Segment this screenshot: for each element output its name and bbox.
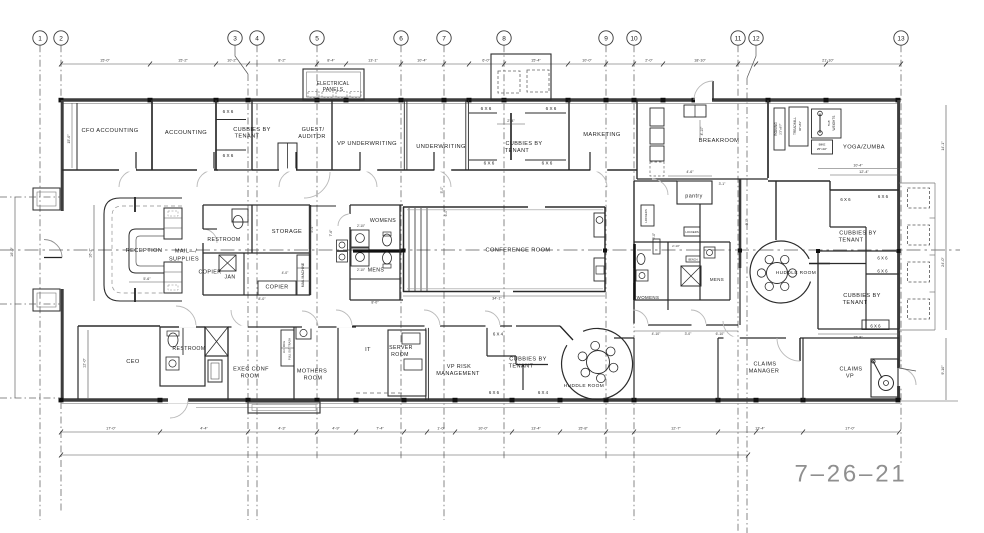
ceo door swing — [176, 306, 196, 326]
junction dot conference west — [402, 249, 406, 253]
door gap vprisk — [425, 325, 441, 328]
top row south wall marketing — [569, 169, 637, 171]
yoga south wall east — [830, 189, 899, 191]
svg-text:PULL OUT TRASH: PULL OUT TRASH — [288, 338, 292, 360]
bottom row north wall a — [160, 326, 205, 328]
ceo west wall — [77, 326, 79, 399]
svg-text:6 X 4: 6 X 4 — [538, 390, 549, 395]
huddle room upper enclosure — [750, 241, 810, 303]
svg-text:ROOM: ROOM — [241, 374, 260, 380]
wall mothers east — [337, 327, 339, 400]
top row south wall vpunderwriting — [334, 169, 405, 171]
cubbies right wall y251 — [818, 250, 899, 252]
cubbies right wall y263 — [818, 263, 866, 265]
north wall window sill line — [61, 103, 900, 105]
grid bubble 11 — [731, 31, 745, 45]
svg-text:7'-6": 7'-6" — [329, 229, 333, 237]
shower stall — [208, 360, 222, 382]
huddle upper chairs — [757, 255, 796, 290]
exterior wall south — [61, 398, 900, 401]
south walkway edge — [196, 407, 560, 409]
svg-text:6 X 6: 6 X 6 — [484, 161, 495, 166]
svg-text:VP UNDERWRITING: VP UNDERWRITING — [337, 141, 397, 147]
corridor north wall link — [310, 205, 336, 207]
svg-text:6'-0": 6'-0" — [444, 209, 448, 217]
svg-text:4'-9": 4'-9" — [332, 427, 340, 431]
svg-text:CEO: CEO — [126, 359, 140, 365]
copier east counter — [258, 281, 296, 295]
cluster thick wall lower — [739, 268, 741, 325]
vp underwriting door swing — [360, 170, 377, 187]
cfo door swing — [119, 170, 136, 187]
wall exec/mothers — [293, 327, 295, 400]
svg-text:HUDDLE ROOM: HUDDLE ROOM — [776, 270, 816, 276]
svg-text:BENCH: BENCH — [688, 258, 697, 262]
top dimension labels — [100, 59, 834, 63]
top row south wall west — [62, 169, 218, 171]
conference inner face south — [407, 288, 603, 290]
mens sink counter — [351, 248, 369, 266]
svg-text:13'-1": 13'-1" — [368, 59, 378, 63]
sw restroom inner wall — [182, 327, 184, 355]
exec counter — [281, 330, 294, 366]
wall breakroom/yoga — [767, 100, 769, 178]
svg-text:9'-10": 9'-10" — [941, 365, 945, 375]
lockers cabinet mid — [684, 227, 700, 236]
svg-text:12'-0": 12'-0" — [83, 358, 87, 368]
wall cubbies east — [251, 100, 253, 170]
grid line 2 — [60, 45, 62, 97]
vestibule inner swing — [304, 172, 330, 198]
svg-text:LOCKERS: LOCKERS — [644, 209, 648, 223]
mothers sink — [296, 327, 311, 339]
cubby south partition d — [522, 365, 524, 391]
barbell symbol — [819, 114, 821, 134]
svg-text:2'-4": 2'-4" — [507, 119, 515, 123]
svg-text:6 X 6: 6 X 6 — [840, 197, 851, 202]
svg-text:9: 9 — [604, 36, 608, 43]
south dimension labels — [106, 427, 855, 431]
cubbies right partition NW horiz — [830, 226, 866, 228]
svg-text:4'-3": 4'-3" — [278, 427, 286, 431]
svg-text:4'-10": 4'-10" — [700, 126, 704, 135]
svg-text:WOMENS: WOMENS — [637, 295, 660, 300]
svg-text:15'-0": 15'-0" — [100, 59, 110, 63]
svg-text:CUBBIES BY: CUBBIES BY — [843, 293, 881, 299]
svg-text:VP RISK: VP RISK — [447, 364, 471, 370]
cubbies right wall y329 — [818, 328, 899, 330]
door gap mothers — [302, 326, 318, 329]
huddle upper door stub — [809, 263, 830, 265]
svg-text:MAIL—/: MAIL—/ — [175, 249, 197, 255]
claims manager door leaf — [799, 338, 801, 361]
svg-text:TENANT: TENANT — [505, 148, 530, 154]
svg-text:34'-1": 34'-1" — [492, 297, 502, 301]
reception desk — [129, 229, 164, 273]
exterior wall north — [61, 98, 900, 101]
east colonnade edge — [934, 183, 936, 330]
east colonnade columns — [908, 188, 930, 319]
svg-text:16'-0": 16'-0" — [10, 247, 14, 257]
svg-text:7'-4": 7'-4" — [376, 427, 384, 431]
door gap it — [337, 325, 353, 328]
svg-text:7–26–21: 7–26–21 — [794, 461, 907, 488]
reception desk inner — [136, 236, 164, 266]
conference credenza south — [594, 258, 605, 281]
ceo vertical dim — [87, 330, 89, 398]
electrical panel units — [308, 92, 361, 98]
svg-text:TENANT: TENANT — [839, 238, 864, 244]
west margin dimension upper — [0, 196, 61, 198]
yoga south wall jog — [829, 181, 831, 190]
door gap underwriting — [435, 168, 452, 171]
svg-text:TENANT: TENANT — [843, 300, 868, 306]
plumbing wall poche — [353, 249, 402, 252]
svg-text:15'-8": 15'-8" — [578, 427, 588, 431]
breakroom counters — [650, 108, 664, 176]
svg-text:18'-10": 18'-10" — [694, 59, 706, 63]
svg-text:6 X 6: 6 X 6 — [870, 324, 881, 329]
core mid wall — [203, 252, 310, 254]
svg-text:MAIL MACHINE: MAIL MACHINE — [301, 262, 305, 287]
door gap ceo — [179, 325, 196, 328]
svg-text:TENANT: TENANT — [235, 134, 260, 140]
wall accounting east — [215, 100, 217, 170]
grid line 12 leader — [747, 45, 756, 78]
claims north wall east — [800, 337, 899, 339]
sw sink — [166, 357, 179, 370]
vp underwriting door leaf — [359, 152, 361, 170]
marketing door leaf — [589, 152, 591, 170]
south wall column blocks — [59, 398, 901, 403]
cubbies right wall y274 — [866, 273, 899, 275]
centre restroom block north wall — [350, 204, 403, 206]
breakroom dim mark — [699, 120, 701, 140]
south dimension line — [61, 431, 899, 433]
grid bubble 13 — [894, 31, 908, 45]
mens south wall — [350, 278, 400, 280]
svg-text:6 X 6: 6 X 6 — [489, 390, 500, 395]
grid line 9 — [605, 45, 607, 460]
weights area — [812, 109, 842, 138]
cubbies centre spine wall — [510, 113, 512, 160]
svg-text:2'-10": 2'-10" — [672, 244, 680, 248]
svg-text:2'2"x8'7": 2'2"x8'7" — [779, 123, 783, 134]
cluster wall north — [634, 180, 677, 182]
svg-text:10'-0": 10'-0" — [582, 59, 592, 63]
wall vprisk east — [486, 326, 488, 356]
mothers door swing — [302, 311, 318, 327]
wall exec west — [227, 327, 229, 400]
svg-text:MARKETING: MARKETING — [583, 132, 620, 138]
grid bubble 3 — [228, 31, 242, 45]
grid line 13 — [900, 45, 902, 465]
wall marketing west — [568, 100, 570, 170]
reception inner guide — [112, 206, 182, 293]
svg-text:6 X 6: 6 X 6 — [546, 106, 557, 111]
rowing machine — [774, 108, 785, 150]
svg-text:15'-4": 15'-4" — [531, 59, 541, 63]
label 6X6 boxed — [862, 320, 889, 330]
svg-text:13'-4": 13'-4" — [531, 427, 541, 431]
urinal lower — [337, 252, 348, 263]
wall jan east — [243, 253, 245, 295]
grid bubble 8 — [497, 31, 511, 45]
claims manager door swing — [777, 338, 800, 361]
door gap guest — [279, 168, 296, 171]
womens centre door swing — [338, 214, 350, 226]
cubbies right wall x866 — [865, 227, 867, 329]
svg-text:2'-10": 2'-10" — [357, 224, 365, 228]
cubby south door swing — [485, 311, 500, 326]
mail machine counter — [297, 255, 310, 295]
svg-text:1: 1 — [38, 36, 42, 43]
huddle south door leaf — [560, 326, 573, 340]
svg-text:4'-6": 4'-6" — [686, 170, 694, 174]
svg-text:21'-10": 21'-10" — [822, 59, 834, 63]
pantry room — [677, 181, 712, 204]
core west wall — [202, 205, 204, 229]
cfo inner west wall — [76, 103, 78, 170]
wall huddle east — [633, 338, 635, 400]
core north wall — [203, 204, 310, 206]
svg-text:SERVER: SERVER — [389, 345, 413, 351]
svg-text:4'-0": 4'-0" — [282, 271, 290, 275]
server rack B — [404, 359, 422, 370]
svg-text:1'-0": 1'-0" — [437, 427, 445, 431]
svg-text:CUBBIES BY: CUBBIES BY — [233, 127, 271, 133]
breakroom exterior door swing — [694, 81, 713, 100]
svg-text:2'-0": 2'-0" — [645, 59, 653, 63]
east dim south — [945, 338, 947, 400]
cubbies right partition NW vert — [829, 190, 831, 227]
entry door leaf — [44, 257, 62, 259]
breakroom upper cabinet — [684, 105, 706, 117]
grid line 4 — [256, 45, 258, 520]
east colonnade ticks — [930, 217, 936, 219]
cluster west wall lower — [633, 283, 635, 325]
svg-text:MOTHERS: MOTHERS — [297, 369, 327, 375]
svg-text:8'-0": 8'-0" — [371, 301, 379, 305]
wall claims divider — [802, 338, 804, 400]
huddle south enclosure — [562, 328, 633, 399]
conference south wall east — [513, 291, 605, 293]
door gap cubby south — [486, 325, 501, 328]
svg-text:13: 13 — [897, 36, 905, 43]
huddle upper table — [767, 263, 788, 284]
womens sink counter — [351, 230, 369, 247]
svg-text:6 X 6: 6 X 6 — [877, 269, 888, 274]
svg-text:TREADMILL: TREADMILL — [793, 117, 797, 135]
svg-text:4'-10": 4'-10" — [652, 332, 661, 336]
svg-text:5'x5': 5'x5' — [827, 120, 831, 126]
west margin line south — [0, 397, 60, 399]
restroom SW walls — [160, 327, 205, 386]
svg-text:5: 5 — [315, 36, 319, 43]
svg-text:ACCOUNTING: ACCOUNTING — [165, 130, 207, 136]
guest door swing — [279, 170, 296, 187]
grid bubble 1 — [33, 31, 47, 45]
svg-text:40"x81": 40"x81" — [798, 121, 802, 131]
svg-text:4: 4 — [255, 36, 259, 43]
svg-text:TENANT: TENANT — [509, 364, 534, 370]
svg-text:12'-7": 12'-7" — [671, 427, 681, 431]
vestibule north pier — [33, 188, 60, 210]
reception wall stub north — [134, 197, 136, 212]
skylight enclosure — [491, 54, 551, 100]
it dashed line — [356, 392, 404, 394]
svg-text:15'-2": 15'-2" — [178, 59, 188, 63]
grid bubble 12 — [749, 31, 763, 45]
centre restroom west wall — [349, 205, 351, 300]
svg-text:8'-2": 8'-2" — [278, 59, 286, 63]
east exit door swing — [899, 368, 916, 385]
svg-text:WEIGHTS: WEIGHTS — [832, 116, 836, 131]
restroom door swing mid — [203, 229, 217, 243]
door gap womens centre — [349, 214, 352, 227]
janitor mop sink — [219, 255, 236, 271]
reception dim 9-6 — [129, 281, 164, 283]
svg-text:COPIER: COPIER — [198, 270, 221, 276]
grid line 8 — [503, 45, 505, 460]
top row south wall guest — [252, 169, 334, 171]
cubby south north wall — [516, 325, 560, 327]
svg-text:10'-0": 10'-0" — [478, 427, 488, 431]
reception wall stub south — [134, 288, 136, 302]
cubbies centre partition SW — [469, 159, 497, 161]
svg-text:CUBBIES BY: CUBBIES BY — [839, 231, 877, 237]
svg-text:6'-10": 6'-10" — [716, 332, 725, 336]
svg-text:15'-0": 15'-0" — [67, 134, 71, 144]
marketing door swing — [590, 170, 607, 187]
corridor door swing b — [691, 310, 706, 325]
sw toilet — [168, 333, 178, 347]
it door swing — [336, 310, 352, 326]
grid line 1 — [39, 45, 41, 520]
yoga south wall west — [768, 180, 830, 182]
skylight A — [498, 71, 520, 93]
cluster south wall — [634, 324, 738, 326]
reception cabinet north — [164, 208, 182, 239]
conference east wall — [604, 207, 606, 292]
svg-text:pantry: pantry — [685, 194, 702, 200]
svg-text:AUDITOR: AUDITOR — [298, 134, 325, 140]
svg-text:STORAGE: STORAGE — [272, 229, 303, 235]
svg-text:COPIER: COPIER — [265, 285, 288, 291]
svg-text:6 X 6: 6 X 6 — [877, 256, 888, 261]
grid bubble 2 — [54, 31, 68, 45]
svg-text:MANAGEMENT: MANAGEMENT — [436, 371, 480, 377]
svg-text:U.C. FRIG: U.C. FRIG — [282, 341, 286, 353]
shaft box — [681, 266, 701, 286]
door gap claims corridor — [724, 337, 740, 340]
horizontal centreline — [0, 249, 960, 251]
reception vertical dim — [93, 205, 95, 301]
south wall entry opening — [168, 397, 188, 403]
bench west — [653, 239, 660, 254]
grid line 10 — [633, 45, 635, 520]
svg-text:12: 12 — [752, 36, 760, 43]
cluster wall x700 — [699, 204, 701, 300]
south dimension ticks — [59, 430, 901, 435]
south wall east extension — [900, 400, 958, 402]
svg-text:25"x32": 25"x32" — [817, 147, 827, 151]
cluster wall y300 — [634, 299, 730, 301]
server room walls — [388, 330, 426, 396]
mens right fixture — [704, 247, 715, 258]
grid bubble 9 — [599, 31, 613, 45]
svg-text:3: 3 — [233, 36, 237, 43]
svg-text:5'-0": 5'-0" — [652, 233, 656, 239]
spiral stair — [879, 376, 894, 391]
wall vp underwriting east — [403, 100, 405, 170]
cfo vertical dim — [71, 103, 73, 168]
svg-text:SUPPLIES: SUPPLIES — [169, 257, 199, 263]
svg-text:8'-4": 8'-4" — [327, 59, 335, 63]
underwriting door leaf — [433, 152, 435, 170]
grid line 7 — [443, 45, 445, 520]
svg-text:IT: IT — [365, 347, 371, 353]
conference credenza north — [594, 213, 605, 237]
svg-text:CLAIMS: CLAIMS — [754, 362, 777, 368]
vestibule south pier — [33, 289, 60, 311]
wall restroom/storage — [251, 205, 253, 253]
cubby south partition a — [487, 355, 516, 357]
svg-text:CONFERENCE ROOM: CONFERENCE ROOM — [485, 248, 550, 254]
svg-text:5'-0": 5'-0" — [440, 186, 444, 194]
wall underwriting east — [465, 100, 467, 170]
svg-text:24'-0": 24'-0" — [941, 257, 945, 267]
cluster thick wall — [739, 179, 742, 268]
conference width dim — [403, 295, 605, 297]
cfo door leaf — [135, 152, 137, 170]
svg-text:17'-0": 17'-0" — [106, 427, 116, 431]
claims north wall west — [718, 337, 786, 339]
svg-text:14'-1": 14'-1" — [941, 141, 945, 151]
vprisk door swing — [424, 310, 440, 326]
cubbies west divider upper — [216, 119, 246, 121]
svg-text:VP: VP — [846, 374, 854, 380]
west margin dimension lower — [0, 303, 61, 305]
svg-text:7: 7 — [442, 36, 446, 43]
svg-text:GUEST/: GUEST/ — [302, 127, 325, 133]
centre restroom east wall — [399, 205, 401, 300]
svg-text:BIKE: BIKE — [819, 143, 826, 147]
svg-text:6 X 6: 6 X 6 — [481, 106, 492, 111]
exterior wall west — [61, 100, 64, 400]
it north wall — [338, 325, 512, 327]
cluster wall y242 — [634, 241, 730, 243]
cubbies right dim — [818, 333, 899, 335]
svg-text:10'-4": 10'-4" — [417, 59, 427, 63]
svg-text:3'-0": 3'-0" — [685, 332, 693, 336]
exec door swing — [231, 310, 248, 327]
svg-text:CUBBIES BY: CUBBIES BY — [505, 141, 542, 147]
west overall dimension line — [14, 197, 16, 398]
svg-text:6 X 6: 6 X 6 — [878, 194, 889, 199]
breakroom door swing — [652, 179, 668, 195]
svg-text:16'-2": 16'-2" — [89, 248, 93, 258]
svg-text:BREAKROOM: BREAKROOM — [699, 138, 740, 144]
grid line 5 — [316, 45, 318, 460]
svg-text:JAN: JAN — [225, 275, 236, 281]
conference north wall east — [545, 206, 605, 208]
wall guest east — [331, 100, 333, 170]
svg-text:6'-0": 6'-0" — [482, 59, 490, 63]
svg-text:CLAIMS: CLAIMS — [840, 367, 863, 373]
exec patio — [248, 402, 320, 413]
svg-text:3'-1": 3'-1" — [719, 182, 727, 186]
